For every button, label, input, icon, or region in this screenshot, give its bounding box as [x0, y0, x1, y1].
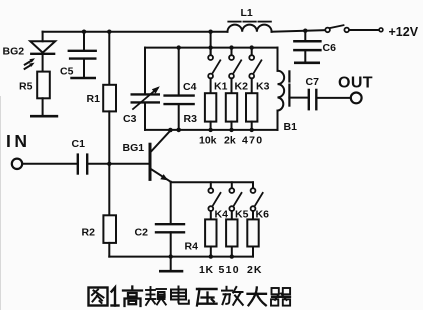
glyph ya [197, 289, 217, 306]
node 1K-ground junction [209, 254, 213, 258]
terminal IN [12, 159, 22, 169]
transformer B1 primary [278, 71, 285, 111]
wire tank box left edge upper [144, 48, 146, 95]
node K1 bottom junction [208, 128, 212, 132]
svg-text:IN: IN [6, 131, 31, 151]
glyph fang [222, 287, 243, 305]
svg-text:R2: R2 [82, 227, 96, 239]
node C4 top junction [177, 45, 181, 49]
node K3 bottom junction [250, 128, 254, 132]
glyph gao [123, 287, 142, 307]
svg-text:C1: C1 [72, 138, 86, 150]
node rail-R1 junction [107, 30, 111, 34]
resistor 510 body [226, 219, 237, 256]
wire emitter to C2 [170, 182, 172, 224]
wire top supply rail [43, 31, 228, 33]
wire switch to +12V [349, 29, 379, 31]
LED BG2 [30, 32, 55, 72]
node tank top junction [208, 45, 212, 49]
switch K6 [251, 182, 263, 219]
capacitor C6 [294, 31, 320, 63]
wire ground rail [109, 256, 253, 258]
terminal OUT [351, 93, 362, 104]
node rail-C5 junction [82, 30, 86, 34]
resistor R5 [37, 72, 50, 116]
glyph qi [271, 288, 290, 306]
wire tank box bottom edge [145, 129, 278, 131]
ground below C5 [72, 77, 95, 80]
wire secondary to C7 [289, 97, 308, 99]
LED BG2 emission arrows [25, 58, 35, 69]
variable capacitor C3 [132, 86, 160, 109]
resistor 10k body [205, 93, 216, 130]
resistor 2K body [247, 219, 258, 256]
svg-text:C6: C6 [323, 42, 337, 54]
wire IN to C1 [22, 163, 77, 165]
glyph pin [146, 287, 166, 305]
svg-text:K3: K3 [256, 81, 270, 93]
svg-text:L1: L1 [241, 7, 253, 19]
capacitor C7 [309, 90, 317, 109]
svg-text:OUT: OUT [338, 75, 373, 92]
glyph tu [89, 288, 108, 306]
capacitor C5 [69, 32, 96, 78]
scanner edge left (decorative) [0, 96, 2, 310]
svg-text:BG1: BG1 [123, 142, 145, 154]
resistor 2k body [226, 93, 237, 130]
wire C2 to ground rail [170, 232, 172, 256]
node collector junction [168, 128, 173, 133]
svg-text:K1: K1 [214, 81, 228, 93]
ground symbol [160, 257, 182, 272]
transistor BG1 [150, 131, 171, 182]
svg-text:K2: K2 [235, 81, 249, 93]
terminal +12V [379, 28, 383, 32]
inductor L1 [228, 25, 272, 32]
node K2 top junction [229, 45, 233, 49]
svg-text:R1: R1 [87, 93, 101, 105]
node C2-ground junction [169, 254, 173, 258]
svg-text:BG2: BG2 [3, 46, 25, 58]
svg-text:C2: C2 [135, 227, 149, 239]
svg-text:1K: 1K [199, 264, 214, 276]
resistor 1K body [205, 219, 216, 256]
svg-text:+12V: +12V [389, 25, 419, 39]
ground below R5 [31, 115, 57, 118]
switch K2 [229, 48, 241, 94]
glyph da [248, 288, 267, 306]
ground below C6 [295, 61, 318, 64]
svg-text:R3: R3 [184, 113, 198, 125]
wire rail to tank box [210, 32, 212, 56]
wire tank box top edge [145, 47, 278, 49]
wire tank box right edge lower [277, 111, 279, 130]
wire C7 to OUT [317, 97, 351, 99]
wire rail after L1 to switch [272, 30, 326, 32]
svg-text:C7: C7 [306, 76, 320, 88]
svg-text:R5: R5 [19, 81, 33, 93]
resistor 470 body [246, 93, 257, 130]
capacitor C2 [156, 224, 184, 232]
svg-text:R4: R4 [185, 241, 199, 253]
glyph dian [171, 287, 189, 304]
svg-text:C3: C3 [123, 113, 137, 125]
caption 图1高频电压放大器 [89, 287, 291, 307]
node C4 bottom junction [176, 128, 181, 133]
wire C1 to base [88, 163, 149, 165]
transformer B1 secondary bar [288, 71, 290, 105]
svg-text:C5: C5 [60, 66, 74, 78]
node rail-tank junction [208, 30, 212, 34]
capacitor C1 [78, 155, 87, 174]
resistor R2 [103, 164, 116, 257]
switch K5 [229, 182, 241, 219]
svg-text:470: 470 [242, 135, 263, 147]
wire emitter line [171, 181, 253, 184]
svg-text:2K: 2K [247, 264, 262, 276]
switch S power [325, 25, 349, 32]
switch K4 [208, 182, 220, 219]
wire tank box left edge lower [144, 103, 146, 130]
node 510-ground junction [230, 254, 234, 258]
node K2 bottom junction [229, 128, 233, 132]
inductor L1 core dashes [228, 21, 271, 23]
glyph 1 [112, 288, 119, 306]
capacitor C4 [165, 48, 194, 130]
node K3 top junction [250, 45, 254, 49]
switch K1 [208, 48, 220, 94]
svg-text:B1: B1 [284, 121, 298, 133]
svg-text:510: 510 [219, 264, 240, 276]
wire tank box right edge upper [277, 48, 279, 71]
svg-text:10k: 10k [199, 135, 217, 147]
node rail-C6 junction [303, 29, 307, 33]
resistor R1 [103, 32, 116, 164]
switch K3 [249, 48, 261, 94]
node base junction [107, 162, 111, 166]
svg-text:2k: 2k [224, 135, 236, 147]
svg-text:C4: C4 [183, 81, 197, 93]
